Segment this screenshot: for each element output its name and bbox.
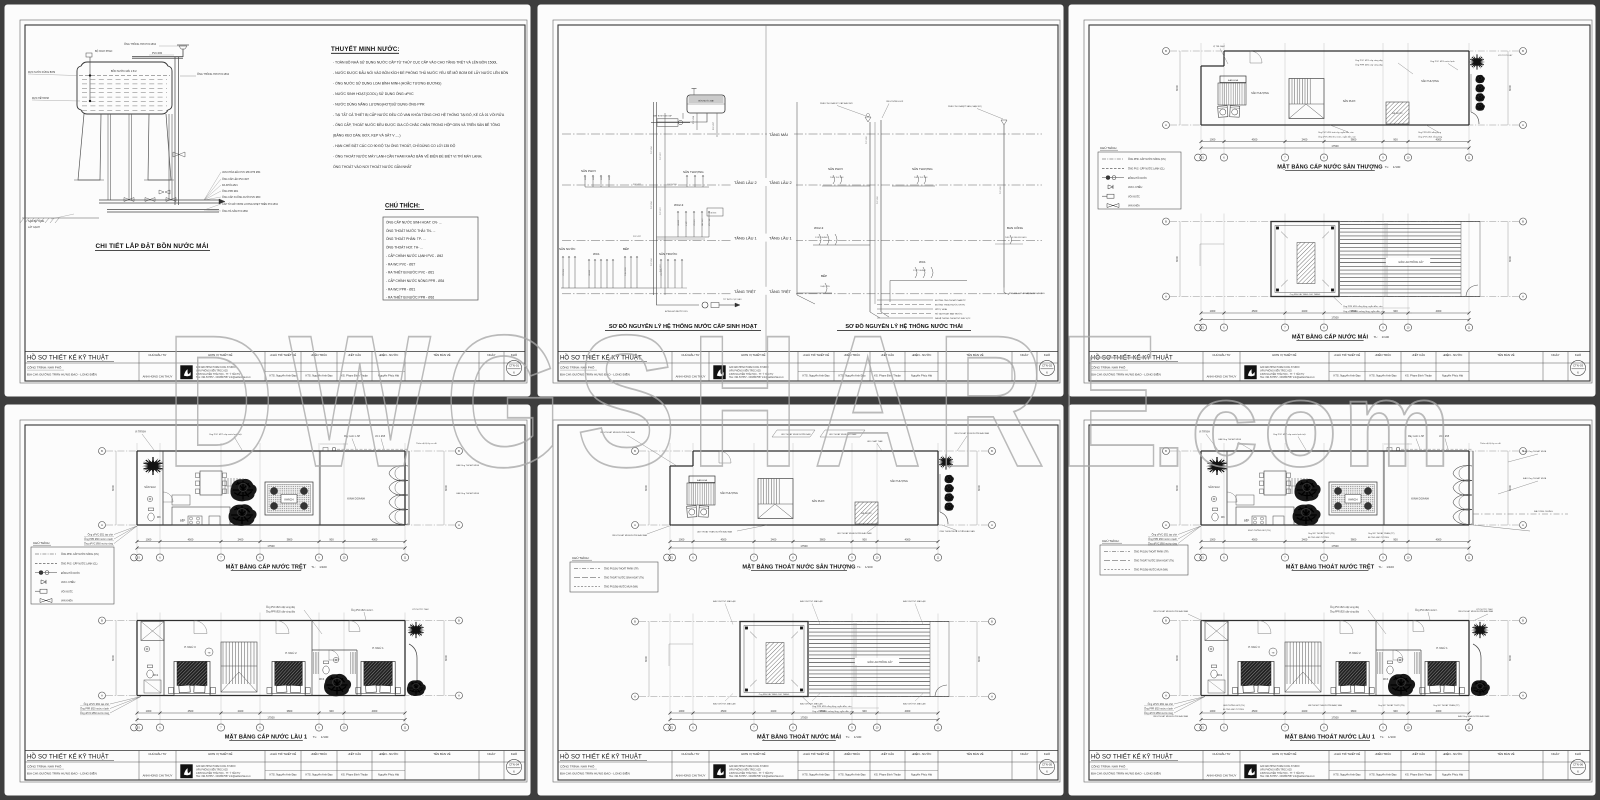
svg-text:.com: .com	[1152, 356, 1456, 492]
svg-text:DWGSHARE: DWGSHARE	[166, 297, 1174, 507]
